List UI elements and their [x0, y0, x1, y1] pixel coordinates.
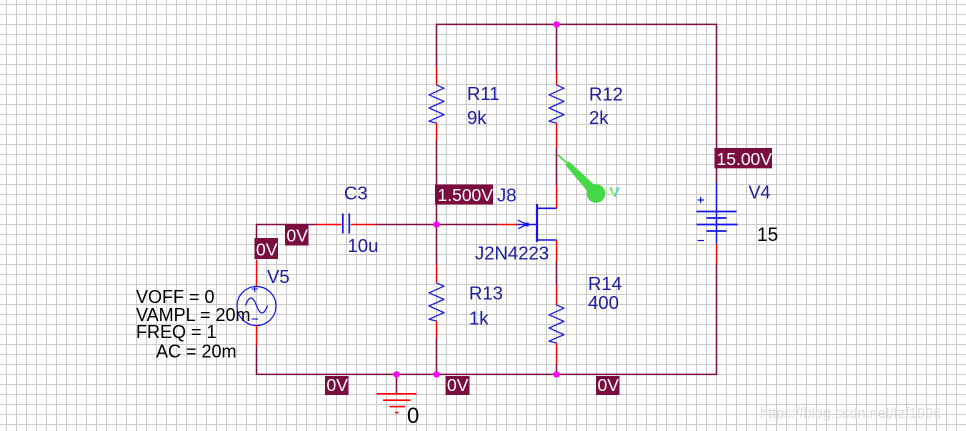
wire R11 bottom to junction — [436, 141, 438, 225]
svg-text:VOFF = 0: VOFF = 0 — [136, 287, 215, 307]
svg-text:R13: R13 — [469, 283, 503, 304]
node junction ground — [393, 371, 399, 377]
voltage label 0V box on input wire — [285, 225, 309, 246]
wire input left horizontal — [257, 224, 317, 226]
wire C3 to gate junction — [375, 224, 437, 226]
wire V5 bottom corner — [256, 345, 258, 375]
svg-text:15.00V: 15.00V — [717, 149, 773, 169]
svg-text:15: 15 — [757, 225, 778, 246]
svg-text:1k: 1k — [469, 308, 489, 329]
wire top-right drop to V4 — [716, 24, 718, 182]
wire ground stub — [396, 374, 398, 393]
wire R12 bottom to JFET drain (probe net) — [556, 148, 558, 186]
wire R13 bottom to rail — [436, 339, 438, 376]
svg-text:0V: 0V — [598, 375, 620, 395]
svg-text:J8: J8 — [497, 185, 517, 206]
wire R14 bottom to rail — [556, 365, 558, 376]
voltage label 1.500V box — [435, 185, 493, 206]
voltage source V5 — [237, 260, 276, 346]
node junction R14 bottom — [553, 371, 559, 377]
voltage label 15.00V box — [715, 148, 773, 169]
svg-text:400: 400 — [588, 292, 619, 313]
probe V marker — [557, 154, 618, 203]
svg-text:https://blog.csdn.net/fzf1996: https://blog.csdn.net/fzf1996 — [760, 406, 941, 422]
svg-text:0V: 0V — [256, 240, 278, 260]
svg-text:C3: C3 — [344, 183, 368, 204]
wire V4 bottom — [716, 264, 718, 375]
wire gate horizontal — [437, 224, 498, 226]
resistor R13 — [429, 264, 444, 339]
svg-text:FREQ = 1: FREQ = 1 — [136, 322, 217, 342]
node junction gate — [433, 221, 439, 227]
capacitor C3 — [316, 214, 375, 234]
svg-text:V4: V4 — [749, 183, 771, 203]
JFET J8 — [497, 186, 557, 263]
svg-text:0V: 0V — [447, 375, 469, 395]
node junction R13 bottom — [433, 371, 439, 377]
resistor R11 — [429, 67, 444, 141]
wire bottom rail — [257, 373, 717, 375]
voltage label 0V box bottom right — [596, 375, 620, 395]
wire top drop to R12 — [556, 24, 558, 70]
wire JFET source to R14 — [556, 262, 558, 285]
svg-text:V5: V5 — [267, 266, 290, 287]
voltage label 0V box left — [255, 238, 279, 260]
node junction top R12 — [553, 21, 559, 27]
svg-text:0V: 0V — [287, 226, 309, 246]
label VOFF parameters — [136, 287, 251, 362]
battery V4 — [697, 182, 738, 264]
svg-text:R14: R14 — [588, 273, 622, 294]
voltage label 0V box bottom center — [446, 375, 470, 395]
svg-text:2k: 2k — [589, 107, 609, 128]
svg-text:1.500V: 1.500V — [438, 185, 494, 205]
svg-text:R12: R12 — [589, 84, 623, 105]
svg-text:9k: 9k — [467, 107, 487, 128]
wire top rail — [437, 23, 717, 25]
ground — [377, 394, 417, 413]
resistor R14 — [549, 285, 564, 365]
wire input corner down — [256, 224, 258, 239]
resistor R12 — [549, 71, 564, 149]
svg-text:0: 0 — [407, 403, 419, 428]
svg-text:J2N4223: J2N4223 — [475, 243, 549, 264]
svg-text:R11: R11 — [467, 83, 500, 104]
wire junction down to R13 — [436, 225, 438, 265]
svg-text:10u: 10u — [348, 235, 379, 256]
svg-text:AC = 20m: AC = 20m — [156, 342, 237, 362]
voltage label 0V box bottom near ground — [325, 375, 349, 395]
svg-text:0V: 0V — [327, 375, 349, 395]
wire top-left drop to R11 — [436, 24, 438, 67]
